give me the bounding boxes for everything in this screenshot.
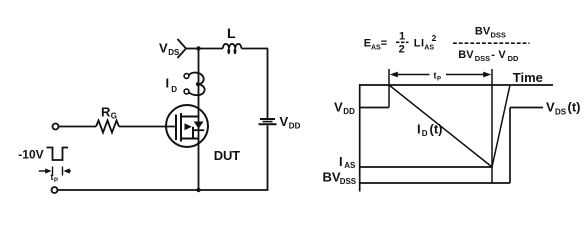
svg-text:V: V <box>546 100 555 115</box>
bottom terminal (open circle) <box>52 187 58 193</box>
top wire node to inductor <box>199 48 224 50</box>
bottom wire <box>58 189 269 191</box>
svg-text:=: = <box>381 37 387 49</box>
battery VDD line 1 <box>260 118 275 120</box>
gate pulse waveform <box>47 148 69 161</box>
svg-text:I: I <box>417 122 421 137</box>
tp arrow right <box>69 170 72 172</box>
svg-text:V: V <box>280 114 289 129</box>
right rail upper <box>267 49 269 119</box>
source junction dot <box>196 188 200 192</box>
body diode cathode bar <box>193 129 204 131</box>
gate input terminal (open circle) <box>53 124 59 130</box>
wire gate terminal to resistor <box>59 126 97 128</box>
svg-text:Time: Time <box>513 70 543 85</box>
svg-text:DUT: DUT <box>214 148 240 163</box>
svg-text:2: 2 <box>399 44 405 56</box>
svg-text:DD: DD <box>289 121 301 130</box>
svg-text:1: 1 <box>399 30 405 42</box>
svg-text:DD: DD <box>343 107 355 116</box>
ID current probe top circle <box>184 74 189 79</box>
svg-text:R: R <box>101 105 111 120</box>
VDS final level line <box>510 107 543 109</box>
svg-text:AS: AS <box>424 44 434 51</box>
VDS probe arrowhead <box>178 39 187 58</box>
inductor L coil <box>223 44 242 49</box>
svg-text:BV: BV <box>458 49 474 61</box>
svg-text:P: P <box>54 178 58 184</box>
svg-text:DSS: DSS <box>475 54 490 63</box>
ID probe lower hook <box>189 84 205 95</box>
svg-text:DD: DD <box>508 54 519 63</box>
ID recovery slant <box>492 85 510 167</box>
inductor curl 2 <box>234 48 237 54</box>
battery VDD line 2 <box>263 121 273 123</box>
tp arrow left <box>39 170 46 172</box>
wire resistor to gate <box>119 126 176 128</box>
battery VDD line 3 <box>259 123 277 125</box>
svg-text:BV: BV <box>323 170 341 185</box>
body diode triangle <box>194 122 204 129</box>
MOSFET body arrow <box>185 123 192 130</box>
tp dimension left tick / VDD step edge <box>388 69 390 108</box>
tp arrow right shaft <box>446 74 484 76</box>
svg-text:DS: DS <box>168 48 180 57</box>
resistor RG <box>96 121 119 133</box>
svg-text:DSS: DSS <box>340 177 357 186</box>
drain node dot <box>196 46 200 50</box>
ID current probe bottom circle <box>184 89 189 94</box>
left vertical axis <box>359 84 361 191</box>
ID probe upper hook <box>189 73 204 84</box>
svg-text:L: L <box>414 37 421 49</box>
svg-text:(t): (t) <box>568 100 581 115</box>
svg-text:E: E <box>364 37 371 49</box>
tp arrow left head <box>390 72 398 78</box>
svg-text:V: V <box>334 100 343 115</box>
VDD level line <box>359 107 389 109</box>
tp tick right <box>62 167 64 176</box>
svg-text:V: V <box>498 49 506 61</box>
IAS level line <box>359 166 492 168</box>
time axis top line <box>359 84 553 86</box>
MOSFET channel bar <box>180 113 182 142</box>
inductor curl 1 <box>227 48 230 54</box>
svg-text:P: P <box>437 77 441 83</box>
svg-text:DSS: DSS <box>491 31 506 40</box>
tp dimension right tick / VDS fall edge <box>491 69 493 183</box>
drain-source vertical wire <box>198 49 200 191</box>
svg-text:-: - <box>491 49 495 61</box>
VDS probe lead <box>186 48 199 50</box>
svg-text:AS: AS <box>344 161 356 170</box>
right rail lower <box>267 126 269 191</box>
svg-text:D: D <box>422 129 428 138</box>
svg-text:(t): (t) <box>430 122 443 137</box>
MOSFET gate bar <box>175 115 177 141</box>
svg-text:-10V: -10V <box>18 148 43 162</box>
wire inductor to right rail <box>241 48 268 50</box>
MOSFET DUT circle <box>166 105 208 147</box>
MOSFET source connection <box>181 138 199 140</box>
svg-text:I: I <box>339 154 343 169</box>
MOSFET body stub <box>192 127 194 139</box>
svg-text:BV: BV <box>475 26 491 38</box>
svg-text:D: D <box>171 85 177 94</box>
svg-text:I: I <box>166 76 170 91</box>
svg-text:V: V <box>159 41 168 56</box>
tp tick left <box>52 167 54 176</box>
svg-text:L: L <box>227 25 236 41</box>
MOSFET drain connection <box>181 116 199 118</box>
svg-text:DS: DS <box>555 107 567 116</box>
VDS rise edge <box>509 108 511 184</box>
tp arrow left shaft <box>398 74 430 76</box>
ID probe center dot <box>196 82 200 86</box>
ID(t) ramp diagonal <box>389 85 492 167</box>
svg-text:AS: AS <box>371 44 381 51</box>
svg-text:G: G <box>111 112 117 121</box>
BVDSS level line <box>359 182 510 184</box>
tp arrow right head <box>483 72 491 78</box>
svg-text:2: 2 <box>432 33 437 43</box>
